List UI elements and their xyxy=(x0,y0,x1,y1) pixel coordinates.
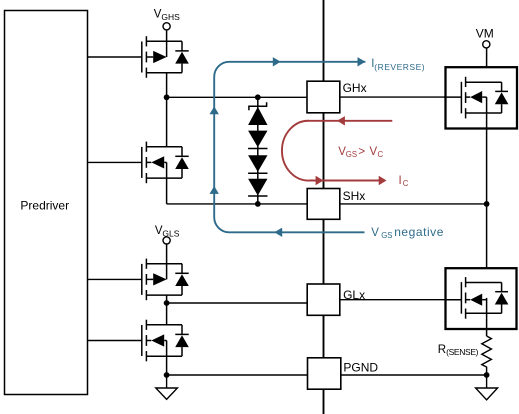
wire clamp chain vertical xyxy=(257,97,259,204)
diode D3 (cathode down) xyxy=(248,179,267,196)
arrowhead blue right end top xyxy=(358,57,366,66)
wire M3 source to node GL xyxy=(166,295,168,303)
wire bus below PGND xyxy=(323,389,325,414)
resistor R(SENSE) xyxy=(438,336,492,375)
wire SH rail to SHx pin xyxy=(167,203,308,205)
wire bus GLx to PGND xyxy=(323,315,325,358)
svg-text:GS: GS xyxy=(381,231,392,240)
pin GHx xyxy=(307,81,367,113)
transistor M2 (high-side sink driver) xyxy=(142,142,189,184)
wire bus above GHx xyxy=(323,0,325,81)
arrowhead red left top xyxy=(337,116,345,125)
transistor M1 (high-side source driver) xyxy=(142,36,189,78)
arrowhead blue left bottom xyxy=(274,228,282,237)
pin GLx xyxy=(307,284,365,315)
wire bus SHx to GLx xyxy=(323,219,325,284)
svg-text:SHx: SHx xyxy=(343,189,366,203)
node PGND junction xyxy=(164,372,170,378)
svg-text:C: C xyxy=(403,179,409,188)
current path IC red loop xyxy=(282,121,392,181)
wire predriver to M1 gate xyxy=(88,56,142,58)
node sense ground junction xyxy=(484,372,490,378)
svg-text:>: > xyxy=(358,146,365,158)
arrowhead blue up lower xyxy=(210,186,219,194)
wire GLx pin to Q2 gate xyxy=(340,299,446,301)
wire node GL to GLx pin xyxy=(167,302,308,304)
transistor M3 (low-side source driver) xyxy=(142,259,189,301)
wire SHx pin to SH node xyxy=(340,203,487,205)
node GH junction xyxy=(164,94,170,100)
transistor Q2 external low-side FET xyxy=(444,268,517,329)
svg-text:(REVERSE): (REVERSE) xyxy=(374,62,425,72)
svg-text:Predriver: Predriver xyxy=(20,199,69,213)
node GL junction xyxy=(164,300,170,306)
arrowhead blue right mid top xyxy=(273,57,281,66)
wire VM to Q1 drain xyxy=(486,48,488,82)
svg-text:negative: negative xyxy=(394,225,444,239)
wire predriver to M2 gate xyxy=(88,161,142,163)
wire PGND pin to sense node xyxy=(341,374,487,376)
svg-text:GHS: GHS xyxy=(161,12,180,22)
wire VGLS to M3 drain xyxy=(166,244,168,280)
svg-text:R: R xyxy=(438,344,446,356)
current path I(REVERSE) blue loop xyxy=(214,62,365,233)
wire predriver to M4 gate xyxy=(88,340,142,342)
pin SHx xyxy=(307,189,365,220)
wire Q1 source down to SH node xyxy=(486,97,488,204)
svg-text:I: I xyxy=(399,175,402,187)
wire GHx pin to Q1 gate xyxy=(340,96,446,98)
terminal VGLS xyxy=(155,225,180,244)
wire SH node to Q2 drain xyxy=(486,204,488,283)
wire Q2 source to resistor xyxy=(486,298,488,336)
wire node GH to GHx pin xyxy=(167,96,307,98)
terminal VM xyxy=(476,27,494,48)
ground symbol left xyxy=(156,375,178,399)
wire M1 source to node GH xyxy=(166,73,168,98)
wire node PGND to PGND pin xyxy=(167,374,308,376)
node clamp chain bottom junction xyxy=(255,201,261,207)
svg-text:VM: VM xyxy=(476,27,494,41)
svg-text:C: C xyxy=(378,150,384,159)
svg-text:V: V xyxy=(371,227,379,239)
wire M4 source to PGND node xyxy=(166,341,168,376)
terminal VGHS xyxy=(154,9,180,30)
transistor M4 (low-side sink driver) xyxy=(142,320,189,362)
node clamp chain top junction xyxy=(255,94,261,100)
svg-text:(SENSE): (SENSE) xyxy=(446,347,479,357)
wire M2 source down to SH rail xyxy=(166,162,168,204)
ground symbol right xyxy=(476,375,498,400)
wire node GH to M2 drain xyxy=(166,97,168,146)
zener diode Z1 (cathode up) xyxy=(249,102,267,110)
node SH source junction xyxy=(484,201,490,207)
arrowhead red right at bus xyxy=(316,176,324,185)
wire predriver to M3 gate xyxy=(88,278,142,280)
svg-text:GS: GS xyxy=(346,150,357,159)
svg-text:GHx: GHx xyxy=(343,81,367,95)
svg-text:V: V xyxy=(370,146,378,158)
wire VGHS to M1 drain xyxy=(166,30,168,57)
svg-text:PGND: PGND xyxy=(343,360,378,374)
wire node GL to M4 drain xyxy=(166,303,168,325)
wire bus GHx to SHx xyxy=(323,113,325,189)
arrowhead blue up upper xyxy=(210,106,219,114)
predriver block U1 xyxy=(5,11,88,395)
transistor Q1 external high-side FET xyxy=(444,67,517,128)
diode D1 (cathode down) xyxy=(248,131,267,149)
diode D2 (cathode down) xyxy=(248,155,267,173)
pin PGND xyxy=(308,358,379,389)
arrowhead red right end xyxy=(379,176,387,185)
